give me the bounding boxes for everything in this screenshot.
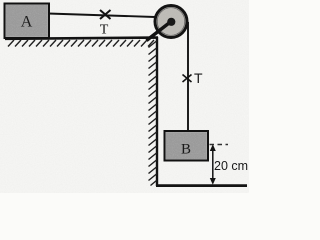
block A [5,4,50,39]
overall scan noise [0,0,249,193]
cut mark X on horizontal string [100,10,111,19]
block B [165,131,209,161]
floor line [156,184,247,187]
table top surface line [5,38,158,39]
string A to pulley (horizontal) [48,14,155,18]
pulley hub [167,18,175,26]
pulley wheel [155,6,187,38]
pulley bracket [147,22,172,41]
table edge hatching [149,41,157,186]
dashed reference line at level of B [210,144,229,146]
table vertical edge line [156,37,158,186]
vertical string pulley to B [187,22,189,132]
measurement arrow (double-headed, 20 cm) [210,144,216,184]
cut mark X on vertical string [183,75,192,83]
table top hatching [8,40,154,47]
